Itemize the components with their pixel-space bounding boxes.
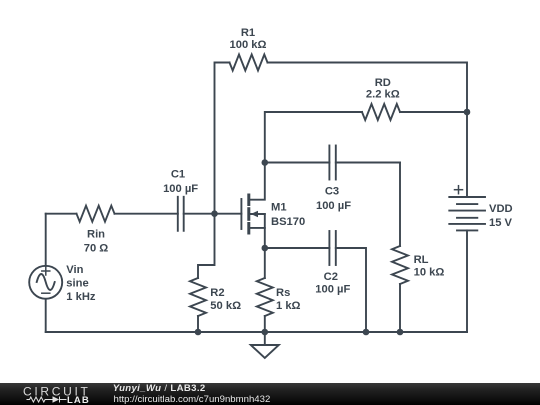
wire RD left xyxy=(265,112,362,163)
wire top left vertical rail xyxy=(215,63,230,214)
svg-text:100 kΩ: 100 kΩ xyxy=(230,39,267,51)
wire R2 bottom xyxy=(197,316,199,332)
svg-text:RL: RL xyxy=(414,254,429,266)
logo art diode xyxy=(53,396,60,403)
node ground junction xyxy=(262,329,269,336)
node RL bottom junction xyxy=(397,329,404,336)
svg-text:sine: sine xyxy=(66,278,88,290)
node C2 bottom junction xyxy=(363,329,370,336)
node gate junction xyxy=(211,210,218,217)
transistor M1 body arrow xyxy=(250,213,264,215)
resistor RL xyxy=(392,246,408,284)
svg-text:70 Ω: 70 Ω xyxy=(84,243,109,255)
svg-text:100 µF: 100 µF xyxy=(163,183,198,195)
resistor Rin xyxy=(77,206,115,222)
footer bar xyxy=(0,383,540,405)
wire RL top xyxy=(399,163,401,247)
svg-text:Rin: Rin xyxy=(87,229,105,241)
resistor RD xyxy=(362,104,400,120)
svg-text:C2: C2 xyxy=(324,271,338,283)
svg-text:1 kHz: 1 kHz xyxy=(66,291,96,303)
node RD-VDD junction xyxy=(464,109,471,116)
svg-text:VDD: VDD xyxy=(489,203,513,215)
transistor M1 gate bar xyxy=(240,199,242,229)
svg-text:2.2 kΩ: 2.2 kΩ xyxy=(366,89,400,101)
svg-text:M1: M1 xyxy=(271,202,287,214)
capacitor C3 xyxy=(265,162,330,164)
capacitor C1 xyxy=(177,197,179,231)
transistor M1 drain lead xyxy=(250,163,265,200)
svg-text:100 µF: 100 µF xyxy=(315,284,350,296)
transistor M1 arrow head xyxy=(251,211,258,217)
wire bottom rail xyxy=(46,331,467,333)
voltage source Vin xyxy=(45,214,47,266)
transistor M1 source lead xyxy=(250,227,265,229)
wire RD right xyxy=(400,111,467,113)
node R2 bottom junction xyxy=(195,329,202,336)
battery VDD xyxy=(449,196,485,198)
node drain junction xyxy=(262,159,269,166)
wire R2 jog xyxy=(198,214,215,278)
ground xyxy=(264,332,266,345)
wire input rail xyxy=(46,213,77,215)
svg-text:1 kΩ: 1 kΩ xyxy=(276,300,301,312)
node source junction xyxy=(262,245,269,252)
resistor Rs xyxy=(264,248,266,278)
svg-text:LAB: LAB xyxy=(67,395,90,405)
transistor M1 channel bars xyxy=(247,195,250,233)
logo art resistor xyxy=(27,397,67,403)
svg-text:50 kΩ: 50 kΩ xyxy=(210,300,241,312)
svg-text:RD: RD xyxy=(375,77,391,89)
svg-text:http://circuitlab.com/c7un9nbm: http://circuitlab.com/c7un9nbmnh432 xyxy=(114,394,271,405)
svg-text:15 V: 15 V xyxy=(489,217,513,229)
svg-text:Rs: Rs xyxy=(276,287,290,299)
svg-text:Vin: Vin xyxy=(66,264,83,276)
svg-text:C3: C3 xyxy=(325,186,339,198)
resistor R2 xyxy=(190,278,206,316)
wire Rin to C1 xyxy=(115,213,178,215)
wire right rail bottom xyxy=(466,230,468,332)
svg-text:100 µF: 100 µF xyxy=(316,200,351,212)
svg-text:R1: R1 xyxy=(241,27,255,39)
capacitor C2 xyxy=(265,247,330,249)
svg-text:Yunyi_Wu / LAB3.2: Yunyi_Wu / LAB3.2 xyxy=(113,383,206,394)
svg-text:BS170: BS170 xyxy=(271,216,305,228)
wire RL bottom xyxy=(399,284,401,332)
resistor R1 xyxy=(230,55,268,71)
wire C1 to gate xyxy=(184,213,242,215)
svg-text:R2: R2 xyxy=(210,287,224,299)
svg-text:10 kΩ: 10 kΩ xyxy=(414,267,445,279)
svg-text:C1: C1 xyxy=(171,168,185,180)
wire R1 to right rail xyxy=(268,63,468,198)
